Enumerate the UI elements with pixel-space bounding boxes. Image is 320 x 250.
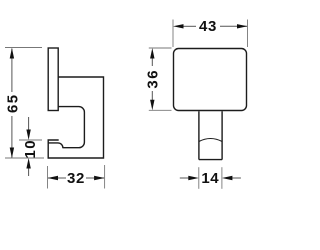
- svg-text:36: 36: [145, 69, 162, 89]
- svg-text:43: 43: [199, 18, 217, 35]
- svg-text:14: 14: [201, 170, 219, 187]
- svg-text:32: 32: [67, 170, 85, 187]
- svg-text:65: 65: [5, 93, 22, 113]
- svg-text:10: 10: [22, 139, 39, 159]
